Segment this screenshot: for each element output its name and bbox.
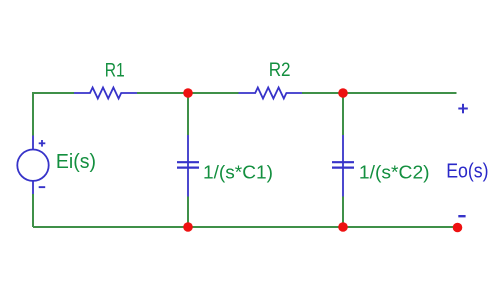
svg-text:Eo(s): Eo(s) [446,161,488,183]
svg-text:R1: R1 [105,61,125,82]
svg-text:1/(s*C1): 1/(s*C1) [203,161,273,182]
svg-text:Ei(s): Ei(s) [56,151,96,173]
svg-text:R2: R2 [269,60,291,81]
svg-text:1/(s*C2): 1/(s*C2) [359,161,430,182]
